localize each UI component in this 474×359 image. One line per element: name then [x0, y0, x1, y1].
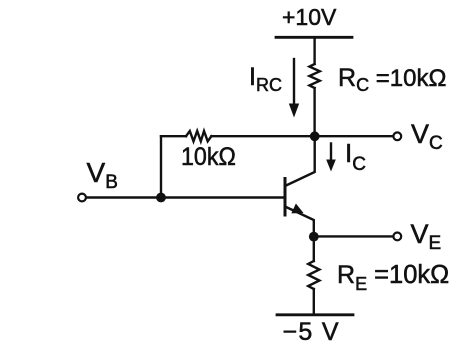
terminal VB circle: [78, 194, 86, 202]
resistor RC zigzag: [309, 64, 319, 88]
wire: emitter node to RE top: [313, 237, 315, 261]
transistor Q1 collector lead: [285, 136, 315, 186]
+10V supply rail bar: [276, 36, 352, 39]
current arrow IRC line: [293, 59, 295, 104]
current arrow IC line: [330, 144, 332, 161]
terminal VE circle: [393, 233, 401, 241]
current arrow IRC head: [289, 104, 299, 118]
-5V supply rail bar: [277, 313, 353, 316]
wire: VE lead: [314, 235, 393, 237]
label -5V: [283, 320, 340, 345]
node: collector node dot: [310, 131, 320, 141]
wire: rail to RC top: [313, 37, 315, 64]
wire: RC bottom to collector node: [313, 88, 315, 136]
label IRC: [249, 65, 282, 94]
wire: horizontal collector rail (left branch + VC lead): [161, 135, 186, 137]
label +10V: [282, 6, 336, 29]
label RE value: [337, 263, 449, 293]
transistor Q1 emitter lead: [285, 207, 314, 237]
resistor RE zigzag: [308, 261, 319, 289]
wire: left branch vertical: [160, 136, 162, 197]
wire: RE bottom to -5V bar: [313, 289, 315, 315]
current arrow IC head: [326, 160, 336, 172]
wire: base wire from VB terminal: [87, 196, 285, 198]
transistor Q1 emitter arrowhead: [291, 204, 303, 214]
node: emitter node dot: [309, 232, 319, 242]
terminal VC circle: [393, 132, 401, 140]
label VE: [411, 221, 442, 253]
transistor Q1 base bar: [284, 179, 287, 216]
node: base node dot: [156, 193, 166, 203]
resistor 10k (base feedback) zigzag: [186, 131, 211, 141]
label RC value: [338, 66, 446, 94]
label VB: [87, 159, 118, 192]
label IC: [345, 140, 366, 174]
wire: zigzag to VC terminal: [211, 135, 392, 137]
label 10k value: [181, 145, 236, 170]
label VC: [411, 121, 443, 153]
